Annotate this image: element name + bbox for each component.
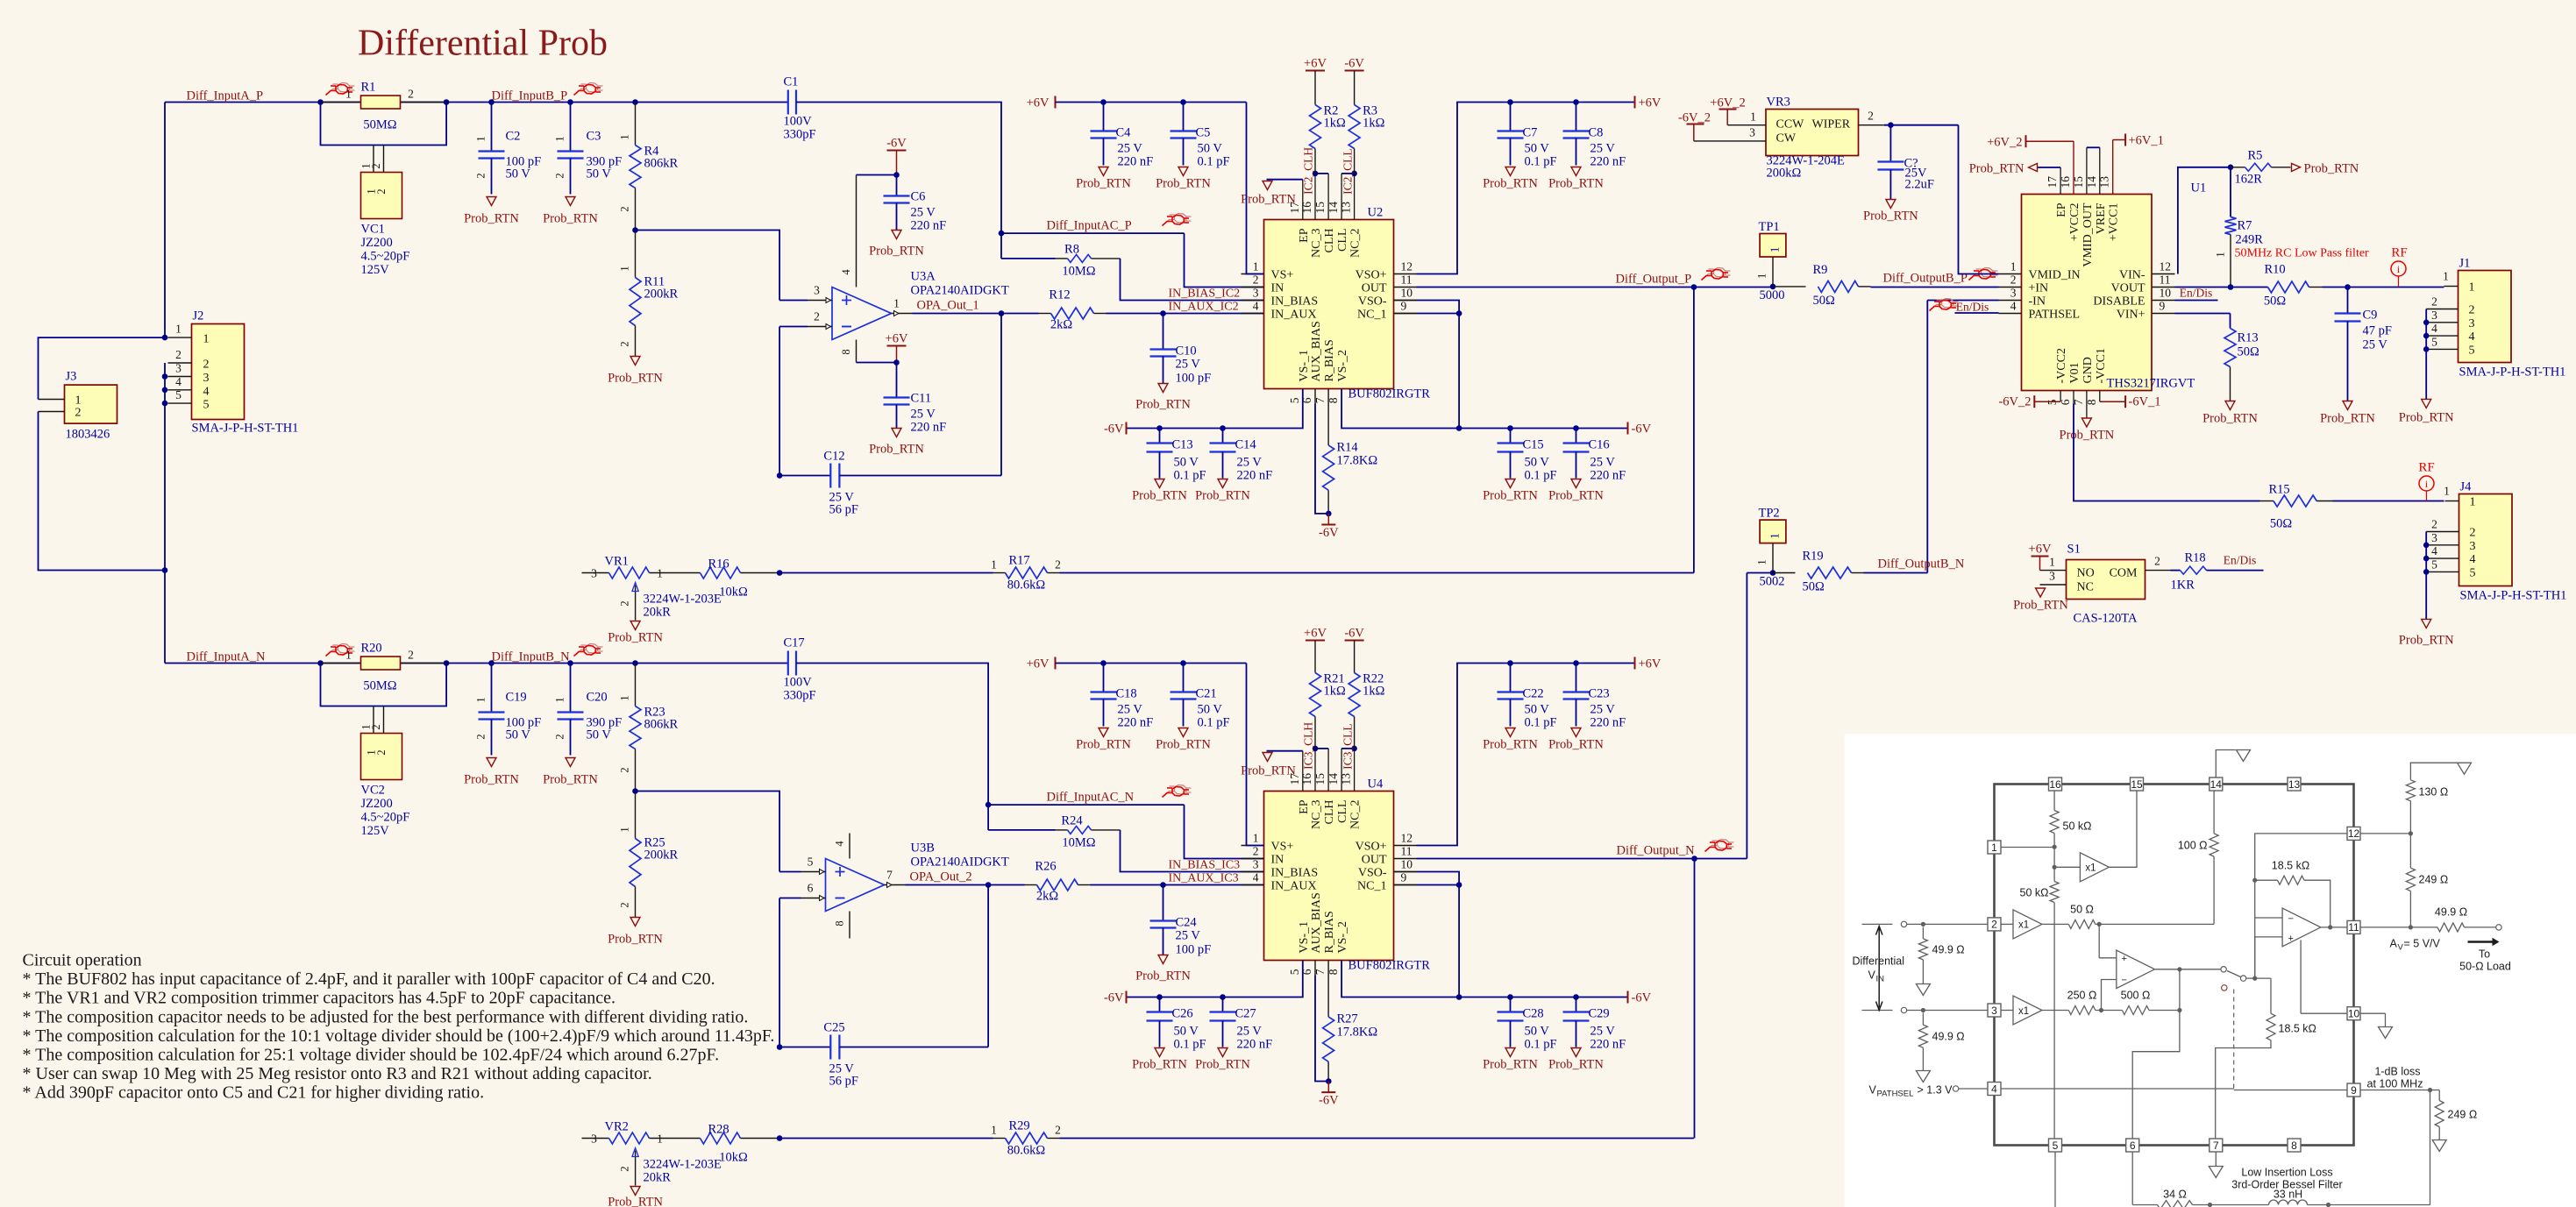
svg-text:VMID_OUT: VMID_OUT xyxy=(2081,202,2095,267)
svg-text:U3B: U3B xyxy=(911,841,935,856)
svg-text:J3: J3 xyxy=(66,370,77,384)
J4 pins 2-5 xyxy=(2426,531,2459,533)
svg-text:C6: C6 xyxy=(911,190,926,204)
S1 pin 2 COM wire xyxy=(2145,570,2171,572)
svg-text:VS+: VS+ xyxy=(1271,269,1294,282)
wire R26 to IN_AUX xyxy=(1163,884,1264,886)
op-amp U3A power pin 8 xyxy=(856,340,857,363)
svg-text:-6V: -6V xyxy=(1104,991,1124,1005)
svg-text:Prob_RTN: Prob_RTN xyxy=(1135,969,1191,983)
svg-text:2: 2 xyxy=(475,734,487,739)
svg-text:Prob_RTN: Prob_RTN xyxy=(543,212,598,226)
inset resistor 250 ohm xyxy=(2042,1010,2068,1012)
svg-text:1: 1 xyxy=(2010,260,2017,273)
inset IC boundary square xyxy=(1995,785,2354,1146)
svg-text:R24: R24 xyxy=(1061,814,1083,828)
wire En/Dis to U1 pin4 xyxy=(1955,312,1999,314)
svg-text:2: 2 xyxy=(75,407,82,420)
svg-text:IN_BIAS_IC3: IN_BIAS_IC3 xyxy=(1169,859,1241,872)
svg-text:2: 2 xyxy=(2470,527,2476,540)
svg-text:En/Dis: En/Dis xyxy=(2180,287,2213,300)
svg-text:OPA2140AIDGKT: OPA2140AIDGKT xyxy=(911,856,1009,870)
S1 pin 1 xyxy=(2040,570,2067,572)
ground Prob_RTN at R11 xyxy=(630,357,640,366)
svg-text:5: 5 xyxy=(2431,557,2437,571)
ground Prob_RTN at C4 xyxy=(1099,167,1108,176)
svg-text:4.5~20pF: 4.5~20pF xyxy=(361,250,410,264)
wire divider tap to op-amp + xyxy=(636,792,780,872)
svg-text:Prob_RTN: Prob_RTN xyxy=(1135,398,1191,412)
inset resistor 249 lower xyxy=(2430,1090,2440,1091)
capacitor C21 xyxy=(1180,660,1186,666)
svg-text:1: 1 xyxy=(619,695,631,700)
svg-text:C3: C3 xyxy=(587,130,601,144)
J3 pin 2 xyxy=(39,411,65,413)
trimmer capacitor VC1 body xyxy=(361,173,402,219)
ground Prob_RTN at C19 xyxy=(487,758,496,767)
svg-text:13: 13 xyxy=(1340,202,1353,214)
svg-text:VS+: VS+ xyxy=(1271,841,1294,854)
svg-text:Diff_InputA_P: Diff_InputA_P xyxy=(187,89,264,103)
no-ERC marker Diff_Output_P xyxy=(1704,274,1714,279)
svg-text:+6V_2: +6V_2 xyxy=(1987,136,2022,150)
wire VR3 to U1 VMID_IN xyxy=(1959,125,1999,274)
svg-text:0.1 pF: 0.1 pF xyxy=(1198,716,1230,730)
svg-text:15: 15 xyxy=(1313,202,1327,214)
svg-text:4: 4 xyxy=(2470,553,2476,566)
U2 top pin stubs xyxy=(1302,180,1304,220)
svg-text:20kR: 20kR xyxy=(644,606,672,620)
capacitor C15 xyxy=(1507,425,1513,431)
svg-text:Prob_RTN: Prob_RTN xyxy=(2013,599,2068,613)
svg-text:8: 8 xyxy=(2291,1140,2297,1152)
inset arrow To 50 ohm load xyxy=(2468,938,2500,947)
ground Prob_RTN at R25 xyxy=(630,918,640,927)
inset diff amp stage xyxy=(2098,924,2100,957)
svg-text:4.5~20pF: 4.5~20pF xyxy=(361,811,410,825)
svg-text:+6V: +6V xyxy=(2029,543,2052,557)
op-amp U3B power pin 8 xyxy=(849,912,850,939)
svg-text:R9: R9 xyxy=(1813,263,1828,277)
svg-text:C27: C27 xyxy=(1235,1007,1256,1021)
power -6V below R14 xyxy=(1327,514,1329,525)
svg-text:V01: V01 xyxy=(2068,362,2081,383)
U2 pin12 VSO+ to +6V rail right xyxy=(1417,103,1635,274)
svg-text:56 pF: 56 pF xyxy=(829,503,858,517)
svg-text:-6V_2: -6V_2 xyxy=(1998,395,2031,409)
op-amp U3B output pin 7 xyxy=(885,884,906,886)
resistor R8 10M xyxy=(1000,233,1002,259)
svg-text:50Ω: 50Ω xyxy=(2238,345,2260,359)
op-amp U3A output pin 1 xyxy=(892,313,913,315)
J1 pin 1 xyxy=(2444,286,2459,288)
inset pin10 wires and ground xyxy=(2301,1012,2347,1014)
svg-text:1: 1 xyxy=(203,333,210,346)
ground Prob_RTN at C10 xyxy=(1158,384,1168,393)
op-amp U3A xyxy=(832,288,892,340)
svg-text:Prob_RTN: Prob_RTN xyxy=(2399,410,2454,424)
svg-text:1: 1 xyxy=(175,323,181,336)
svg-text:VSO+: VSO+ xyxy=(1356,841,1387,854)
svg-text:VSO-: VSO- xyxy=(1358,867,1387,880)
svg-text:VR1: VR1 xyxy=(605,555,629,569)
inset wire pin12 to feedback node xyxy=(2255,834,2347,880)
inset ground at 249 lower xyxy=(2432,1140,2446,1152)
svg-text:Prob_RTN: Prob_RTN xyxy=(1969,162,2025,176)
svg-text:SMA-J-P-H-ST-TH1: SMA-J-P-H-ST-TH1 xyxy=(2460,589,2567,603)
svg-text:15: 15 xyxy=(2131,778,2143,791)
svg-text:2: 2 xyxy=(2431,518,2437,531)
svg-text:15: 15 xyxy=(1313,773,1327,785)
capacitor C26 xyxy=(1156,994,1163,1000)
svg-text:6: 6 xyxy=(2130,1140,2136,1152)
op-amp U3B xyxy=(826,859,885,912)
capacitor C16 xyxy=(1573,425,1579,431)
svg-text:VC1: VC1 xyxy=(361,223,385,237)
svg-text:Differential: Differential xyxy=(1853,955,1905,968)
resistor R12 2k xyxy=(1001,313,1039,315)
svg-text:9: 9 xyxy=(1401,871,1407,884)
svg-text:2: 2 xyxy=(619,600,631,606)
svg-text:4: 4 xyxy=(834,841,846,847)
svg-text:14: 14 xyxy=(1327,202,1340,214)
svg-text:34 Ω: 34 Ω xyxy=(2163,1189,2187,1201)
svg-text:OPA_Out_2: OPA_Out_2 xyxy=(910,870,972,884)
no-ERC marker at Diff_InputA_P xyxy=(328,89,338,94)
svg-text:3: 3 xyxy=(1749,126,1755,139)
svg-text:CLL: CLL xyxy=(1336,229,1349,252)
svg-text:50MΩ: 50MΩ xyxy=(363,679,396,693)
svg-text:0.1 pF: 0.1 pF xyxy=(1198,155,1230,169)
ground Prob_RTN at VR2 xyxy=(630,1187,640,1196)
U2 pin6 AUX_BIAS wire xyxy=(1314,389,1316,404)
svg-text:2: 2 xyxy=(1253,845,1259,858)
svg-text:Prob_RTN: Prob_RTN xyxy=(1863,209,1918,224)
svg-text:Prob_RTN: Prob_RTN xyxy=(1156,738,1211,752)
svg-text:IN_AUX: IN_AUX xyxy=(1271,309,1317,322)
svg-text:C26: C26 xyxy=(1172,1007,1193,1021)
wire +6V rail to U2 VS+ xyxy=(1247,103,1264,274)
svg-text:500 Ω: 500 Ω xyxy=(2121,990,2151,1002)
svg-text:1: 1 xyxy=(619,827,631,832)
svg-text:Prob_RTN: Prob_RTN xyxy=(608,631,663,645)
svg-text:+6V: +6V xyxy=(1027,96,1050,110)
svg-text:R5: R5 xyxy=(2248,149,2263,163)
svg-text:1803426: 1803426 xyxy=(66,428,110,442)
inset differential input bars xyxy=(1862,923,1893,925)
inset pin box 7 xyxy=(2210,1139,2223,1152)
svg-text:2: 2 xyxy=(1055,1124,1061,1137)
no-ERC marker at Diff_InputA_N xyxy=(328,650,338,655)
svg-text:Prob_RTN: Prob_RTN xyxy=(1132,489,1187,503)
svg-text:-6V: -6V xyxy=(1319,526,1339,540)
inset pin box 15 xyxy=(2131,777,2144,791)
no-ERC marker at Diff_InputB_N xyxy=(576,650,587,655)
svg-text:Prob_RTN: Prob_RTN xyxy=(1076,738,1131,752)
ground Prob_RTN at C27 xyxy=(1218,1048,1228,1057)
svg-text:15: 15 xyxy=(2072,176,2085,188)
svg-text:R19: R19 xyxy=(1803,550,1824,564)
capacitor C17 series 330pF xyxy=(787,651,789,676)
svg-text:3: 3 xyxy=(203,372,210,385)
svg-text:1: 1 xyxy=(1750,110,1756,124)
svg-text:100V: 100V xyxy=(784,115,813,129)
wire op-amp + input pin 5 xyxy=(779,871,801,873)
svg-text:3: 3 xyxy=(814,284,820,297)
svg-text:R26: R26 xyxy=(1035,860,1056,874)
svg-text:1: 1 xyxy=(2443,270,2449,283)
svg-text:U2: U2 xyxy=(1368,206,1384,220)
svg-text:3: 3 xyxy=(1253,287,1259,300)
svg-text:17.8KΩ: 17.8KΩ xyxy=(1337,1026,1378,1040)
svg-text:J4: J4 xyxy=(2460,480,2473,494)
svg-text:1: 1 xyxy=(1768,533,1782,539)
svg-text:1kΩ: 1kΩ xyxy=(1363,117,1385,131)
svg-text:VS-_1: VS-_1 xyxy=(1298,350,1311,382)
svg-text:TP2: TP2 xyxy=(1759,507,1780,521)
ground Prob_RTN at C9 xyxy=(2343,401,2352,410)
svg-text:IN: IN xyxy=(1876,975,1885,984)
wire Diff_OutputB_P to U1 +IN xyxy=(1694,287,1773,288)
svg-text:2: 2 xyxy=(1055,558,1061,572)
svg-text:EP: EP xyxy=(2055,202,2068,217)
svg-text:130 Ω: 130 Ω xyxy=(2419,786,2449,799)
svg-text:C22: C22 xyxy=(1523,687,1544,701)
svg-text:17: 17 xyxy=(2046,176,2059,188)
svg-text:Prob_RTN: Prob_RTN xyxy=(464,212,519,226)
svg-text:1: 1 xyxy=(1756,559,1768,564)
svg-text:CAS-120TA: CAS-120TA xyxy=(2074,612,2138,626)
svg-text:1: 1 xyxy=(1768,247,1782,253)
svg-text:Prob_RTN: Prob_RTN xyxy=(608,372,663,386)
svg-text:25 V: 25 V xyxy=(2363,338,2388,352)
svg-text:PATHSEL: PATHSEL xyxy=(2029,309,2081,322)
inset resistor 100 ohm to pin14 xyxy=(2213,856,2215,924)
wire Diff_InputAC_P to U pin2 IN xyxy=(1185,233,1264,287)
svg-text:C11: C11 xyxy=(911,392,932,406)
svg-text:IN: IN xyxy=(1271,282,1284,295)
svg-text:NC_2: NC_2 xyxy=(1349,800,1363,829)
VR3 pin 2 wire xyxy=(1858,124,1884,126)
svg-text:1: 1 xyxy=(75,394,82,408)
svg-text:+: + xyxy=(2288,934,2294,944)
svg-text:R20: R20 xyxy=(361,642,382,656)
capacitor C6 xyxy=(896,175,898,196)
svg-text:Prob_RTN: Prob_RTN xyxy=(1483,177,1538,191)
svg-text:3: 3 xyxy=(2431,531,2437,544)
wire Diff_InputA_P main horizontal xyxy=(165,102,788,103)
svg-text:V: V xyxy=(1869,1084,1877,1097)
svg-text:50 Ω: 50 Ω xyxy=(2070,904,2094,916)
svg-text:* The BUF802 has input capacit: * The BUF802 has input capacitance of 2.… xyxy=(23,969,715,989)
svg-text:-6V: -6V xyxy=(1632,991,1652,1005)
svg-text:Prob_RTN: Prob_RTN xyxy=(2202,412,2258,426)
svg-text:R12: R12 xyxy=(1049,288,1070,302)
wire C1 to AC node xyxy=(796,103,1001,234)
svg-text:J1: J1 xyxy=(2459,257,2471,271)
wire Diff_Output_N vertical to R29 xyxy=(1694,859,1696,1139)
wire op-amp pin4 to -6V node xyxy=(857,174,897,176)
svg-text:0.1 pF: 0.1 pF xyxy=(1525,155,1557,169)
svg-text:C4: C4 xyxy=(1116,126,1132,140)
svg-text:10: 10 xyxy=(2160,287,2172,300)
inset resistor 49.9 upper xyxy=(1918,939,1927,960)
svg-text:JZ200: JZ200 xyxy=(361,236,393,250)
inset pin box 9 xyxy=(2347,1083,2360,1097)
svg-text:50 V: 50 V xyxy=(506,167,531,181)
svg-text:C10: C10 xyxy=(1176,344,1197,359)
svg-text:+6V_2: +6V_2 xyxy=(1710,96,1745,110)
svg-text:DISABLE: DISABLE xyxy=(2093,295,2145,309)
svg-text:VC2: VC2 xyxy=(361,784,385,798)
wire op-amp - input pin 2 xyxy=(779,326,808,328)
svg-text:50 V: 50 V xyxy=(1525,142,1550,156)
svg-text:at 100 MHz: at 100 MHz xyxy=(2367,1078,2423,1090)
svg-text:1: 1 xyxy=(1991,841,1997,854)
inset resistor 130 to ground xyxy=(2360,833,2410,834)
inset pin box 5 xyxy=(2049,1139,2062,1152)
wire Diff_OutputB_N to U1 -IN riser xyxy=(1747,572,1773,574)
svg-text:5002: 5002 xyxy=(1760,575,1785,589)
svg-text:2.2uF: 2.2uF xyxy=(1905,178,1934,192)
resistor R1 50M rectangle xyxy=(321,102,361,103)
svg-text:50 V: 50 V xyxy=(1525,703,1550,717)
ground Prob_RTN at C6 xyxy=(892,231,901,239)
svg-text:Prob_RTN: Prob_RTN xyxy=(1241,764,1296,778)
svg-text:4: 4 xyxy=(1253,871,1259,884)
svg-text:806kR: 806kR xyxy=(644,718,679,732)
capacitor C27 xyxy=(1220,994,1226,1000)
wire J2 pins 2-5 bus xyxy=(164,363,166,571)
J4 pin 1 xyxy=(2445,501,2459,502)
inset input open circle upper xyxy=(1901,921,1906,927)
svg-text:25 V: 25 V xyxy=(1118,703,1143,717)
inset datasheet figure background xyxy=(1845,735,2576,1207)
op-amp U3A power pin 4 xyxy=(856,175,857,288)
svg-text:Prob_RTN: Prob_RTN xyxy=(1076,177,1131,191)
svg-text:50 V: 50 V xyxy=(1198,703,1223,717)
wire C17 to AC node xyxy=(796,664,988,806)
svg-text:1: 1 xyxy=(991,1124,997,1137)
svg-text:5: 5 xyxy=(1288,969,1301,975)
capacitor C9 47pF xyxy=(2347,288,2349,314)
resistor R24 10M xyxy=(987,805,989,830)
svg-text:3: 3 xyxy=(591,1132,597,1146)
svg-text:C19: C19 xyxy=(506,691,527,705)
svg-text:2: 2 xyxy=(1253,273,1259,287)
svg-text:49.9 Ω: 49.9 Ω xyxy=(1932,1031,1965,1043)
svg-text:2: 2 xyxy=(375,749,388,755)
resistor R5 162R xyxy=(2231,167,2245,168)
svg-text:En/Dis: En/Dis xyxy=(1956,301,1989,314)
J2 pin 1 xyxy=(168,337,192,338)
inset resistor 18.5k shunt xyxy=(2270,978,2272,1013)
svg-text:25 V: 25 V xyxy=(1176,358,1201,372)
wire loop to trimmer VC1 xyxy=(321,103,447,146)
svg-text:4: 4 xyxy=(840,269,852,275)
svg-text:10MΩ: 10MΩ xyxy=(1062,265,1095,279)
resistor R27 17.8K xyxy=(1327,961,1329,1017)
svg-text:IC3_CLL: IC3_CLL xyxy=(1341,723,1355,770)
svg-text:1kΩ: 1kΩ xyxy=(1363,685,1385,699)
svg-text:R7: R7 xyxy=(2238,219,2252,233)
svg-text:Prob_RTN: Prob_RTN xyxy=(1548,1058,1604,1072)
svg-text:VS-_2: VS-_2 xyxy=(1336,921,1349,954)
svg-text:7: 7 xyxy=(2213,1140,2219,1152)
svg-text:RF: RF xyxy=(2391,246,2407,260)
svg-text:2: 2 xyxy=(619,206,631,211)
ground Prob_RTN at C13 xyxy=(1155,479,1164,488)
power -6V left rail U4 xyxy=(1126,991,1128,1004)
svg-text:5: 5 xyxy=(175,388,181,401)
inset pin box 16 xyxy=(2049,777,2062,791)
svg-text:12: 12 xyxy=(1401,832,1413,845)
svg-text:C7: C7 xyxy=(1523,126,1538,140)
inset diff amp minus input xyxy=(2102,980,2117,1011)
ground Prob_RTN at J4 xyxy=(2425,572,2427,619)
svg-text:R17: R17 xyxy=(1009,554,1030,568)
svg-text:49.9 Ω: 49.9 Ω xyxy=(2435,906,2467,919)
svg-text:2: 2 xyxy=(619,341,631,346)
svg-text:1: 1 xyxy=(619,266,631,271)
ground Prob_RTN at C8 xyxy=(1571,167,1581,176)
svg-text:COM: COM xyxy=(2110,567,2138,580)
svg-text:249R: 249R xyxy=(2236,233,2264,247)
wire Diff_Output_N to TP2 riser xyxy=(1695,858,1747,860)
svg-text:= 5 V/V: = 5 V/V xyxy=(2404,938,2441,950)
svg-text:3224W-1-203E: 3224W-1-203E xyxy=(644,1158,722,1172)
svg-text:Prob_RTN: Prob_RTN xyxy=(1548,738,1604,752)
svg-text:50Ω: 50Ω xyxy=(2270,517,2293,531)
svg-text:CLH: CLH xyxy=(1323,229,1336,253)
svg-text:* The composition calculation: * The composition calculation for 25:1 v… xyxy=(23,1046,720,1065)
svg-text:Diff_InputB_P: Diff_InputB_P xyxy=(492,89,568,103)
svg-text:1: 1 xyxy=(1253,832,1259,845)
resistor R28 10k xyxy=(677,1138,701,1140)
svg-text:Prob_RTN: Prob_RTN xyxy=(543,773,598,787)
svg-text:U4: U4 xyxy=(1368,777,1384,792)
svg-text:Differential Prob: Differential Prob xyxy=(358,24,608,64)
inset pin box 4 xyxy=(1988,1083,2001,1096)
inset pin box 11 xyxy=(2347,920,2360,934)
svg-text:13: 13 xyxy=(1340,773,1353,785)
svg-text:2kΩ: 2kΩ xyxy=(1050,318,1073,332)
svg-text:IN_AUX_IC3: IN_AUX_IC3 xyxy=(1169,872,1239,885)
connector J3 xyxy=(65,385,117,423)
svg-text:C13: C13 xyxy=(1172,438,1193,452)
capacitor C11 xyxy=(896,363,898,398)
directive RF at J4 xyxy=(2419,476,2434,491)
svg-text:Prob_RTN: Prob_RTN xyxy=(1195,489,1250,503)
ground Prob_RTN at C11 xyxy=(892,429,901,437)
svg-text:18.5 kΩ: 18.5 kΩ xyxy=(2279,1023,2316,1035)
svg-text:220 nF: 220 nF xyxy=(911,219,947,233)
ground Prob_RTN at VR1 xyxy=(630,621,640,630)
svg-text:NC_1: NC_1 xyxy=(1357,880,1386,893)
inset vertical pin9 to filter xyxy=(2430,1090,2431,1205)
svg-text:Diff_OutputB_P: Diff_OutputB_P xyxy=(1883,272,1968,286)
svg-text:-6V_2: -6V_2 xyxy=(1678,111,1711,125)
U4 pin12 VSO+ to +6V rail right xyxy=(1417,664,1635,846)
svg-text:VMID_IN: VMID_IN xyxy=(2029,269,2081,282)
trimmer VR2 xyxy=(582,1138,609,1140)
svg-text:13: 13 xyxy=(2288,778,2301,791)
svg-text:16: 16 xyxy=(1300,773,1313,785)
op-amp U3B power pin 4 xyxy=(849,834,850,859)
svg-text:Prob_RTN: Prob_RTN xyxy=(1548,489,1604,503)
junction dots input line xyxy=(317,660,324,666)
wire U1 VOUT row xyxy=(2175,287,2268,288)
